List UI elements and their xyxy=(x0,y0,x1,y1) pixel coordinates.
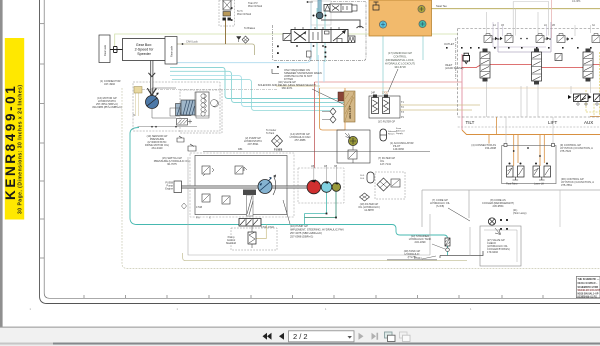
small relief valve xyxy=(463,56,470,62)
capsule xyxy=(367,172,374,183)
last page button disabled xyxy=(372,333,379,340)
coupling chevron upper xyxy=(148,73,155,77)
svg-text:297-5691: 297-5691 xyxy=(248,142,260,146)
teal riser to top valves xyxy=(306,2,311,63)
tank label xyxy=(404,249,421,259)
pilot arc cap xyxy=(357,26,364,28)
olive line mid left xyxy=(136,93,139,116)
spring right xyxy=(348,36,355,43)
svg-text:D84: D84 xyxy=(238,148,243,151)
svg-text:HYDRAULIC LOCKOUT): HYDRAULIC LOCKOUT) xyxy=(385,62,415,66)
toolbar separator xyxy=(0,327,600,328)
svg-text:Pilot Oil Mod: Pilot Oil Mod xyxy=(237,13,252,16)
svg-text:Speeder: Speeder xyxy=(137,52,151,56)
box xyxy=(369,96,400,118)
pilot valve stack xyxy=(223,0,231,10)
dashed line above motor boxes xyxy=(136,89,277,91)
teal bundle line 3 xyxy=(170,71,330,102)
svg-text:To Brakes: To Brakes xyxy=(244,27,256,30)
prev page button xyxy=(279,333,284,340)
pilot caps row xyxy=(484,34,600,43)
control gp joystick label upper xyxy=(560,143,593,153)
rear axle box right xyxy=(165,37,177,65)
svg-text:179-9402: 179-9402 xyxy=(487,250,499,254)
shaft down from gearbox xyxy=(151,60,153,96)
barrel circles xyxy=(201,94,218,116)
steering pump circle xyxy=(258,180,272,194)
accumulator 2 xyxy=(383,98,390,114)
svg-text:TILT: TILT xyxy=(466,120,475,125)
inner olive box bottom xyxy=(183,253,467,261)
svg-text:AUX: AUX xyxy=(584,120,593,125)
svg-text:Float Raise: Float Raise xyxy=(506,183,518,186)
svg-text:IMPLEMENT, STEERING, HYDRAULIC: IMPLEMENT, STEERING, HYDRAULIC FAN xyxy=(290,228,344,232)
fan pump olive xyxy=(332,183,341,192)
svg-text:AUX LIFT: AUX LIFT xyxy=(348,105,352,119)
svg-text:To Tank: To Tank xyxy=(266,132,275,135)
zone tick marks bottom border xyxy=(84,295,584,298)
joystick pair 2 lower lift xyxy=(533,163,551,186)
svg-text:Return: Return xyxy=(388,133,395,136)
svg-text:149-0066: 149-0066 xyxy=(393,147,405,151)
dashed box xyxy=(375,172,405,199)
svg-text:257-0998 (DBR+G): 257-0998 (DBR+G) xyxy=(290,235,313,239)
motor gp hydraulic fan label xyxy=(290,132,311,142)
svg-text:347-4902: 347-4902 xyxy=(104,82,116,86)
teal connect pump circles bottom xyxy=(305,192,327,225)
teal lines into aux manifold xyxy=(330,99,344,107)
pump barrel dark block xyxy=(243,190,256,196)
port dots row xyxy=(446,47,592,49)
check diamonds left xyxy=(330,108,336,123)
teal pipe left vertical xyxy=(130,128,448,256)
prev view icon xyxy=(385,332,396,342)
teal bundle line 5 lower xyxy=(172,80,330,111)
pump control manifold dashed box xyxy=(226,226,277,250)
leader lines xyxy=(422,244,445,259)
teal bundle line 4 xyxy=(170,76,330,107)
vertical hatched column xyxy=(247,195,254,216)
strainer label xyxy=(409,234,432,244)
svg-text:1A: 1A xyxy=(493,24,496,27)
pilot symbol inside xyxy=(373,2,379,10)
node dots on orange lines xyxy=(513,150,515,152)
valve below xyxy=(348,150,357,159)
engine box xyxy=(174,181,182,193)
port squares on box top xyxy=(504,144,507,147)
tank bottom line xyxy=(440,251,483,258)
striped pump block xyxy=(181,100,195,115)
svg-text:234-1099: 234-1099 xyxy=(415,240,427,244)
filter gp oil label xyxy=(378,156,395,166)
sensor gp label xyxy=(145,134,169,150)
only required note xyxy=(284,68,322,81)
teal bundle line 1 pale blue outer xyxy=(170,62,306,64)
green dashed perimeter box xyxy=(122,88,600,268)
motor block hatched xyxy=(176,104,192,116)
pale blue risers mid xyxy=(318,55,324,96)
shaft extension xyxy=(287,186,334,189)
sheet border inner line xyxy=(44,0,600,298)
bracket symbol xyxy=(272,69,279,74)
tank line bottom center xyxy=(387,259,437,261)
status bar dark rule xyxy=(0,343,53,345)
switch gp label xyxy=(154,156,191,166)
small zone letters below border xyxy=(30,308,473,311)
check valve label xyxy=(487,238,510,254)
svg-text:257-4886: 257-4886 xyxy=(295,138,307,142)
zone tick marks left border xyxy=(40,24,45,258)
svg-text:154-2608: 154-2608 xyxy=(485,146,497,150)
svg-text:Manifold: Manifold xyxy=(226,241,236,245)
first page button xyxy=(263,333,272,340)
switch pressure symbol xyxy=(188,144,196,151)
small diamonds left xyxy=(182,203,187,209)
svg-text:366-9471: 366-9471 xyxy=(282,86,294,90)
svg-text:CONTROL: CONTROL xyxy=(393,55,407,59)
svg-text:(10) PUMP GP: (10) PUMP GP xyxy=(290,224,308,228)
pump gp label xyxy=(244,136,262,146)
svg-text:3P: 3P xyxy=(334,166,337,168)
svg-text:P.A: P.A xyxy=(196,217,200,220)
arrows inside xyxy=(294,32,306,41)
riser lines above pilot caps xyxy=(487,2,591,37)
solenoid relief valve assembly top xyxy=(307,0,360,28)
next view icon disabled xyxy=(400,332,411,342)
pilot accumulator capsule xyxy=(380,129,387,141)
svg-text:1/4-3Pb: 1/4-3Pb xyxy=(572,0,581,3)
svg-text:Engine: Engine xyxy=(165,188,173,191)
tan hatched manifold xyxy=(344,91,355,122)
svg-text:OUTLET: OUTLET xyxy=(444,42,455,46)
sensor gp component xyxy=(177,119,193,126)
bypass box xyxy=(480,226,521,266)
olive can lock line xyxy=(174,44,255,55)
teal riser 2 xyxy=(317,8,325,62)
left window edge strip xyxy=(0,0,3,327)
check diamond xyxy=(242,36,249,43)
dashed enclosure xyxy=(458,29,600,118)
small symbols between pilot caps xyxy=(495,37,573,41)
gear box 2-speed xyxy=(123,39,166,61)
next page button disabled xyxy=(359,333,364,340)
filter diamond xyxy=(272,135,283,147)
svg-text:261-0420: 261-0420 xyxy=(152,146,164,150)
svg-text:2A: 2A xyxy=(544,24,547,27)
red inlet riser xyxy=(461,54,463,130)
swash arc xyxy=(273,177,276,195)
top solenoid valve xyxy=(330,4,352,12)
motor barrel circles xyxy=(202,94,219,113)
svg-text:Pilot Oil Mod: Pilot Oil Mod xyxy=(248,5,263,8)
svg-text:2-Speed for: 2-Speed for xyxy=(135,48,155,52)
motor internal lines xyxy=(152,88,176,118)
gray pipes xyxy=(422,190,600,227)
loop top inverted u xyxy=(513,1,549,3)
svg-text:M318 S/N 8AL1–UP: M318 S/N 8AL1–UP xyxy=(578,293,599,296)
relief valve 2 xyxy=(235,166,247,174)
leader line pump label xyxy=(283,200,290,224)
red main rail through valve bank xyxy=(462,65,600,68)
svg-text:257-3075 (SBP+GBD+HC): 257-3075 (SBP+GBD+HC) xyxy=(290,231,322,235)
big diamond filter xyxy=(377,178,390,191)
svg-text:245-9554: 245-9554 xyxy=(493,204,505,208)
engine label xyxy=(165,182,173,191)
svg-text:(DIFFERENTIAL LOCK,: (DIFFERENTIAL LOCK, xyxy=(386,58,415,62)
solenoid box left xyxy=(283,34,291,41)
svg-text:12-8878: 12-8878 xyxy=(364,208,374,212)
wider enclosure xyxy=(188,157,430,255)
teal bundle line 2 xyxy=(170,67,330,98)
main directional valve xyxy=(283,26,364,47)
svg-text:334-6985 (857+CMB5+C): 334-6985 (857+CMB5+C) xyxy=(92,105,122,109)
motor bottom link line xyxy=(138,126,198,128)
orange border box xyxy=(320,88,346,130)
svg-text:MEDIA NUMBER –: MEDIA NUMBER – xyxy=(578,282,599,285)
small valve right xyxy=(391,179,400,187)
small diamond below xyxy=(360,193,370,201)
coupling chevron lower xyxy=(147,88,156,95)
orange long pilot line xyxy=(320,87,600,89)
manifold gp label xyxy=(385,51,415,69)
motor gp circle xyxy=(146,96,159,109)
svg-text:THE SCHEMATIC —: THE SCHEMATIC — xyxy=(578,278,600,281)
svg-text:3A: 3A xyxy=(592,24,595,27)
manifold leader line xyxy=(388,69,398,92)
accumulator pilot label xyxy=(390,141,414,151)
svg-text:Supply: Supply xyxy=(396,133,404,135)
lift lowering valve xyxy=(555,54,562,61)
dash-dot enclosure full xyxy=(272,2,366,61)
implement pump label xyxy=(290,224,344,239)
olive drops below aux valves xyxy=(586,52,600,116)
strainer triangle xyxy=(237,37,242,43)
page number input xyxy=(289,331,355,342)
junction squares xyxy=(326,213,328,215)
risers above circles xyxy=(314,165,337,183)
motor connector tan box xyxy=(134,87,142,94)
drop lines from spools xyxy=(487,82,591,117)
strainer circle xyxy=(446,248,450,252)
relief valve 4 xyxy=(222,196,230,204)
svg-text:3(7) FILTER GP: 3(7) FILTER GP xyxy=(378,121,395,124)
pump control manifold label xyxy=(226,235,236,245)
yellow bookmark banner xyxy=(3,38,24,220)
svg-text:SCHEMATIC HYDR: SCHEMATIC HYDR xyxy=(578,286,599,289)
motor dashed box xyxy=(133,82,220,131)
svg-text:17GB: 17GB xyxy=(196,206,203,209)
svg-text:Rear axle: Rear axle xyxy=(170,45,174,57)
svg-text:24F: 24F xyxy=(371,92,376,95)
port labels row xyxy=(493,24,595,27)
implement pump red xyxy=(307,180,321,194)
svg-text:375-7861: 375-7861 xyxy=(561,183,573,187)
dashed box around xyxy=(298,168,344,203)
svg-text:KENR8499–01 PG: KENR8499–01 PG xyxy=(578,296,598,299)
sensor symbol xyxy=(177,136,184,142)
pink riser lift xyxy=(551,0,553,38)
svg-text:WHEELED EXCAVAT: WHEELED EXCAVAT xyxy=(578,289,600,292)
svg-text:(7+5/8): (7+5/8) xyxy=(436,204,444,208)
cooler fan circle xyxy=(488,218,495,225)
svg-text:Lower Lift: Lower Lift xyxy=(534,183,544,186)
joystick enclosure box xyxy=(502,146,556,184)
relief valve 1 xyxy=(202,166,214,176)
spool valve 2 lift xyxy=(532,49,542,85)
olive circle xyxy=(348,136,357,145)
control gp joystick label lower xyxy=(561,177,594,187)
strainer symbol xyxy=(445,238,450,246)
core gp hydraulic oil label xyxy=(430,198,450,208)
leader xyxy=(448,208,470,221)
cyan port circle 1 xyxy=(379,21,386,28)
svg-text:Rear axle: Rear axle xyxy=(103,44,107,56)
pilot valve dashed box top xyxy=(219,0,235,26)
aux small valves lower right xyxy=(568,94,600,105)
vertical control valve xyxy=(248,232,256,244)
svg-text:2B: 2B xyxy=(552,24,555,27)
svg-text:(17) MANIFOLD GP: (17) MANIFOLD GP xyxy=(388,51,412,55)
svg-text:Gear Box:: Gear Box: xyxy=(136,43,152,47)
orange pilot verticals to joysticks xyxy=(489,117,544,166)
svg-text:(LOAD SENSE): (LOAD SENSE) xyxy=(445,66,463,70)
core as cooler label xyxy=(482,198,514,208)
valve teal bar xyxy=(318,0,321,13)
shaft coupling left xyxy=(110,47,123,53)
valve ball circle xyxy=(316,12,323,19)
svg-text:KENR8499-01: KENR8499-01 xyxy=(3,84,18,200)
top line xyxy=(203,151,430,153)
svg-text:17GB 17GD: 17GB 17GD xyxy=(261,226,274,229)
svg-text:(ITL7B): (ITL7B) xyxy=(408,255,417,259)
orange aux line xyxy=(590,116,600,118)
motor gp label xyxy=(92,96,122,109)
svg-text:375-7624: 375-7624 xyxy=(560,149,572,153)
pump control valve block xyxy=(239,219,274,239)
gray feedback loop box xyxy=(498,22,551,52)
rear axle box left xyxy=(99,35,110,63)
toolbar background xyxy=(0,328,600,343)
pink pilot box top xyxy=(315,81,463,83)
drive shaft xyxy=(180,186,308,189)
svg-text:CAN Lock: CAN Lock xyxy=(186,40,198,44)
node dots xyxy=(307,1,309,3)
svg-text:1B: 1B xyxy=(501,24,504,27)
steering pump cyan xyxy=(321,182,332,193)
dashed drop line xyxy=(455,38,457,80)
bottom ports xyxy=(296,45,298,47)
node squares xyxy=(500,219,502,221)
arrow xyxy=(345,133,350,138)
olive horizontal solenoid line xyxy=(276,85,320,87)
port labels xyxy=(401,101,405,119)
teal port circle 2 xyxy=(419,20,426,27)
olive circle port xyxy=(418,5,425,12)
orange pilot line lower right xyxy=(462,130,600,135)
leader line xyxy=(312,89,345,105)
svg-text:Steel Tee: Steel Tee xyxy=(436,4,447,8)
svg-text:T1 CFS: T1 CFS xyxy=(274,148,283,151)
dark green fan pump line xyxy=(305,191,337,218)
svg-text:2 / 2: 2 / 2 xyxy=(293,332,308,341)
outer solid box xyxy=(195,156,287,215)
accumulator 1 xyxy=(372,98,379,114)
spool valve 1 tilt xyxy=(480,49,490,82)
teal drop from manifold cyan port xyxy=(383,28,423,96)
dashed box xyxy=(180,90,222,133)
svg-text:(Horn Lamp): (Horn Lamp) xyxy=(513,212,527,215)
svg-text:343-6718: 343-6718 xyxy=(394,65,406,69)
outer dashed box xyxy=(190,153,294,217)
motor small valve rects xyxy=(170,108,180,116)
maroon block xyxy=(338,92,345,101)
top tabs xyxy=(295,27,339,30)
relief valve 3 xyxy=(202,194,210,202)
svg-text:127-7141: 127-7141 xyxy=(380,162,392,166)
svg-text:4P: 4P xyxy=(324,166,327,168)
svg-text:90-7675: 90-7675 xyxy=(167,162,177,166)
filter label xyxy=(358,202,380,212)
connector as label xyxy=(471,143,496,150)
svg-text:17GD: 17GD xyxy=(382,92,389,95)
pale green shaft speed line xyxy=(115,34,458,47)
arrow xyxy=(495,228,501,235)
valve gp solenoid label xyxy=(258,80,317,90)
dashed net line lower xyxy=(458,126,600,128)
spool valve 3 aux xyxy=(583,49,593,82)
port dots column xyxy=(277,45,279,47)
cooler to tank riser xyxy=(469,227,471,256)
tiny valve mid xyxy=(307,51,312,57)
joystick pair 1 float raise xyxy=(506,163,524,186)
riser joystick gray xyxy=(506,117,553,144)
svg-text:30 Page, (Dimensions: 30 Inche: 30 Page, (Dimensions: 30 Inches x 24 Inc… xyxy=(18,84,24,214)
olive steel tee line top right xyxy=(432,8,600,10)
dark link line xyxy=(321,20,360,28)
spring cylinder right xyxy=(324,5,341,12)
tan lines accumulator to tilt xyxy=(400,105,480,110)
enclosure light xyxy=(311,1,331,25)
svg-text:1P: 1P xyxy=(311,166,314,168)
pink pilot box left edge xyxy=(314,82,316,168)
